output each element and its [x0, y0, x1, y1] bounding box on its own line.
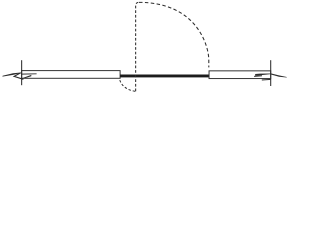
left break vertical line [21, 60, 23, 85]
left break zigzag connector [14, 73, 23, 80]
left break zigzag lower-right stroke [22, 75, 32, 79]
right break zigzag bottom stroke [262, 78, 271, 81]
right break vertical line [270, 60, 272, 86]
left wall segment [22, 71, 120, 79]
right break zigzag stroke 1 (long tapered diagonal) [270, 73, 286, 77]
door leaf (closed position) [120, 75, 209, 78]
right break zigzag mid tail (with thick left lump) [255, 74, 271, 76]
right break zigzag lower-left stroke [254, 75, 262, 78]
left break zigzag stroke 1 (long tapered diagonal) [2, 72, 21, 76]
right wall segment [209, 71, 271, 79]
door leaf open position (dashed line) [136, 2, 139, 91]
secondary swing arc (dashed, below wall) [120, 80, 136, 91]
door swing arc (dashed) [139, 2, 209, 67]
left break zigzag mid tail [21, 73, 36, 75]
